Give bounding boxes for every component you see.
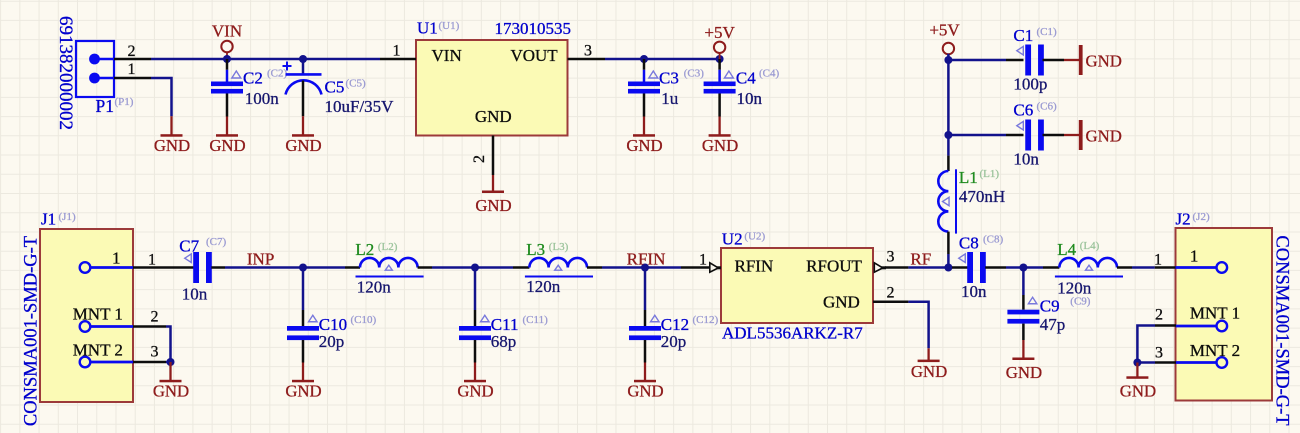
svg-text:L1: L1	[959, 168, 978, 187]
svg-text:10n: 10n	[961, 282, 987, 301]
svg-text:MNT 1: MNT 1	[1190, 304, 1240, 323]
svg-text:(L1): (L1)	[980, 168, 1000, 180]
svg-text:GND: GND	[153, 381, 189, 400]
svg-text:GND: GND	[1086, 126, 1122, 145]
svg-text:GND: GND	[285, 136, 321, 155]
svg-text:10n: 10n	[182, 285, 208, 304]
svg-text:(J2): (J2)	[1193, 211, 1210, 223]
svg-text:10uF/35V: 10uF/35V	[325, 97, 395, 116]
svg-text:3: 3	[887, 249, 895, 266]
svg-text:GND: GND	[626, 136, 662, 155]
svg-text:(C5): (C5)	[346, 78, 367, 90]
svg-text:P1: P1	[96, 96, 114, 116]
svg-text:GND: GND	[702, 136, 738, 155]
svg-text:J1: J1	[41, 210, 56, 229]
svg-text:GND: GND	[457, 381, 493, 400]
svg-text:INP: INP	[247, 250, 274, 269]
svg-text:GND: GND	[1006, 363, 1042, 382]
svg-text:20p: 20p	[319, 332, 345, 351]
svg-text:20p: 20p	[661, 332, 687, 351]
svg-text:3: 3	[151, 344, 159, 361]
svg-text:691382000002: 691382000002	[55, 16, 76, 130]
svg-text:L2: L2	[355, 240, 374, 259]
svg-text:1: 1	[148, 252, 156, 269]
svg-text:VIN: VIN	[212, 22, 242, 41]
svg-text:L4: L4	[1057, 240, 1076, 259]
svg-text:J2: J2	[1176, 210, 1191, 229]
svg-text:10n: 10n	[1013, 150, 1039, 169]
svg-text:100n: 100n	[245, 89, 279, 108]
svg-text:120n: 120n	[526, 277, 561, 296]
svg-text:120n: 120n	[357, 278, 392, 297]
svg-text:ADL5536ARKZ-R7: ADL5536ARKZ-R7	[722, 324, 863, 343]
svg-text:(U2): (U2)	[744, 231, 765, 243]
svg-text:L3: L3	[526, 240, 545, 259]
svg-text:VOUT: VOUT	[510, 46, 558, 65]
svg-text:C8: C8	[959, 234, 979, 253]
svg-text:(C10): (C10)	[351, 314, 377, 326]
svg-text:GND: GND	[823, 293, 860, 312]
svg-text:(C1): (C1)	[1037, 26, 1058, 38]
svg-text:C2: C2	[243, 69, 263, 88]
svg-text:+5V: +5V	[704, 23, 735, 42]
svg-text:10n: 10n	[737, 89, 763, 108]
svg-text:(L4): (L4)	[1080, 240, 1100, 252]
svg-text:(L3): (L3)	[549, 241, 569, 253]
svg-text:GND: GND	[285, 381, 321, 400]
svg-text:RF: RF	[910, 250, 931, 269]
svg-text:(C11): (C11)	[523, 314, 549, 326]
svg-text:(C6): (C6)	[1037, 101, 1058, 113]
svg-text:3: 3	[584, 43, 592, 60]
svg-text:C3: C3	[659, 69, 679, 88]
svg-text:MNT 2: MNT 2	[73, 341, 123, 360]
svg-text:100p: 100p	[1013, 75, 1047, 94]
svg-text:(C3): (C3)	[684, 68, 705, 80]
svg-text:C7: C7	[179, 237, 199, 256]
svg-text:U1: U1	[417, 19, 438, 38]
svg-text:2: 2	[151, 309, 159, 326]
svg-text:1: 1	[1190, 247, 1199, 266]
svg-text:1u: 1u	[661, 89, 679, 108]
svg-text:C4: C4	[736, 69, 756, 88]
svg-text:MNT 1: MNT 1	[73, 305, 123, 324]
svg-text:3: 3	[1155, 345, 1163, 362]
svg-text:120n: 120n	[1057, 279, 1092, 298]
svg-text:GND: GND	[1120, 382, 1156, 401]
svg-text:RFOUT: RFOUT	[806, 257, 862, 276]
svg-text:VIN: VIN	[432, 46, 462, 65]
svg-text:GND: GND	[627, 381, 663, 400]
svg-text:470nH: 470nH	[959, 187, 1005, 206]
svg-text:1: 1	[128, 61, 136, 78]
svg-text:2: 2	[471, 155, 488, 163]
svg-text:U2: U2	[722, 230, 743, 249]
svg-text:(C4): (C4)	[759, 68, 780, 80]
svg-text:GND: GND	[209, 136, 245, 155]
svg-text:C1: C1	[1013, 26, 1033, 45]
svg-text:(C8): (C8)	[983, 234, 1004, 246]
svg-text:GND: GND	[911, 362, 947, 381]
svg-text:(L2): (L2)	[378, 241, 398, 253]
svg-text:173010535: 173010535	[495, 19, 572, 38]
svg-text:+5V: +5V	[929, 21, 960, 40]
svg-text:68p: 68p	[491, 332, 517, 351]
svg-text:GND: GND	[475, 107, 512, 126]
svg-text:(U1): (U1)	[439, 20, 460, 32]
svg-text:GND: GND	[154, 136, 190, 155]
svg-text:1: 1	[112, 249, 121, 268]
svg-text:C6: C6	[1013, 101, 1033, 120]
svg-text:GND: GND	[1086, 51, 1122, 70]
svg-text:CONSMA001-SMD-G-T: CONSMA001-SMD-G-T	[22, 236, 42, 426]
svg-text:C5: C5	[325, 78, 345, 97]
svg-text:C9: C9	[1040, 297, 1060, 316]
svg-text:1: 1	[699, 252, 707, 269]
svg-text:RFIN: RFIN	[627, 250, 666, 269]
svg-text:(C7): (C7)	[206, 236, 227, 248]
svg-text:2: 2	[128, 43, 136, 60]
svg-text:2: 2	[1155, 307, 1163, 324]
svg-text:(J1): (J1)	[59, 211, 76, 223]
svg-text:(P1): (P1)	[115, 96, 134, 108]
svg-text:1: 1	[393, 43, 401, 60]
svg-text:GND: GND	[475, 196, 511, 215]
svg-text:CONSMA001-SMD-G-T: CONSMA001-SMD-G-T	[1272, 235, 1292, 425]
svg-text:47p: 47p	[1040, 315, 1066, 334]
svg-text:MNT 2: MNT 2	[1190, 341, 1240, 360]
svg-text:(C12): (C12)	[693, 314, 719, 326]
svg-text:RFIN: RFIN	[735, 257, 774, 276]
svg-text:1: 1	[1154, 252, 1162, 269]
svg-text:2: 2	[887, 285, 895, 302]
svg-text:(C2): (C2)	[267, 68, 288, 80]
